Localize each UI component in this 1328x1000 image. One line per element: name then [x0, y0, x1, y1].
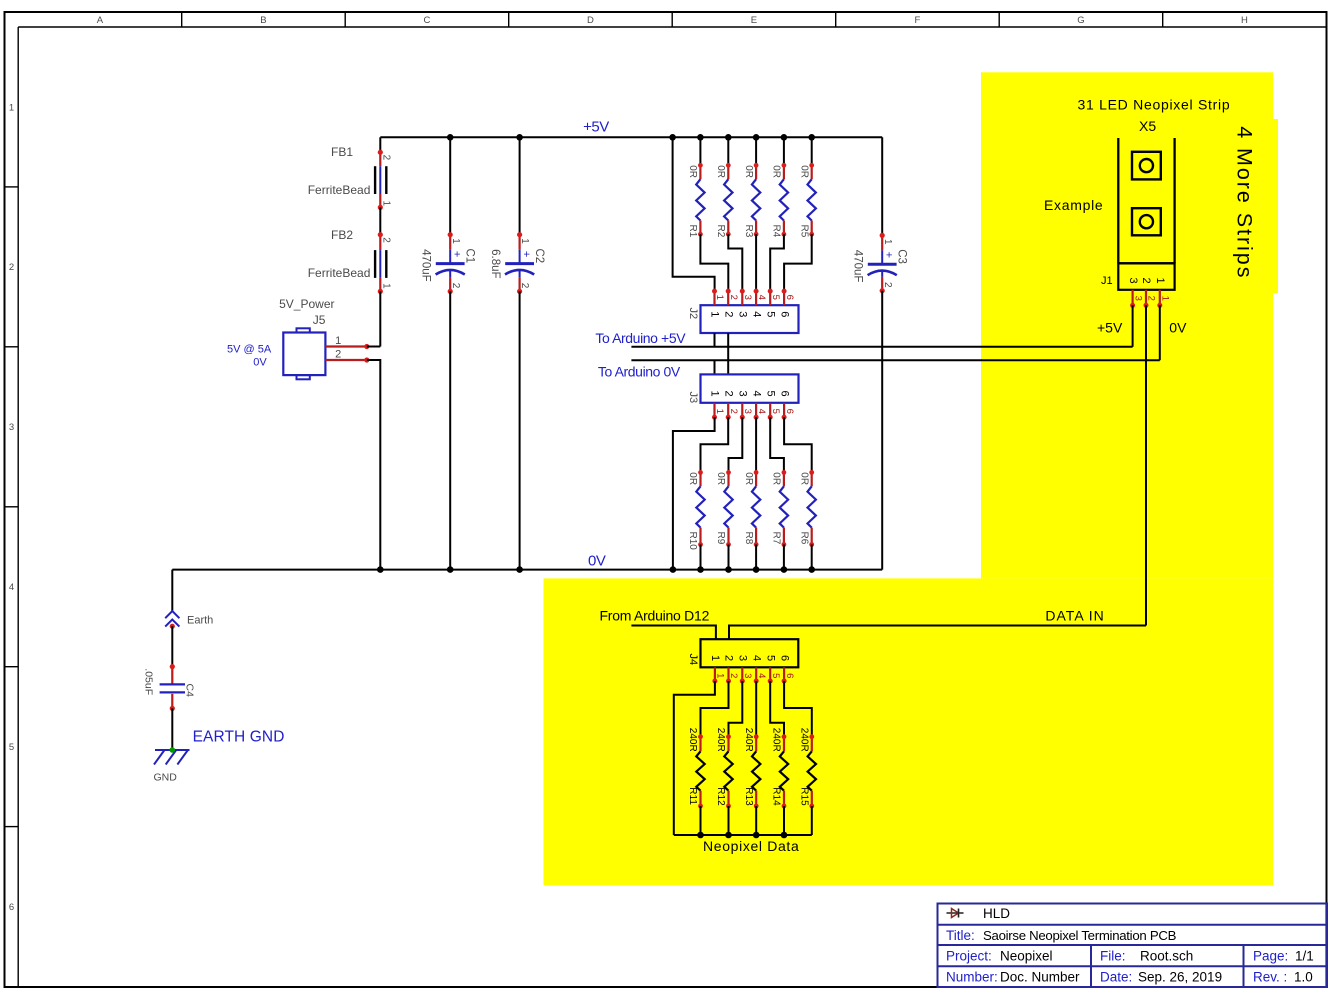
- logo HLD diode symbol: [947, 909, 964, 918]
- wire +5V rail to R2: [727, 137, 729, 165]
- svg-text:R7: R7: [771, 532, 782, 545]
- svg-text:0R: 0R: [771, 165, 782, 178]
- svg-text:3: 3: [742, 409, 753, 414]
- svg-text:GND: GND: [154, 771, 178, 783]
- svg-text:G: G: [1077, 15, 1084, 26]
- svg-text:H: H: [1241, 15, 1248, 26]
- wire J4 pin4 to R13: [755, 681, 757, 737]
- resistor R1 (0R): [687, 163, 705, 238]
- junction dots on +5V top rail: [447, 134, 815, 141]
- svg-text:1: 1: [519, 238, 530, 244]
- svg-text:2: 2: [9, 262, 14, 273]
- wire C1 to 0V rail: [449, 291, 451, 569]
- svg-text:2: 2: [1146, 296, 1157, 301]
- svg-text:240R: 240R: [771, 728, 782, 752]
- svg-text:R4: R4: [771, 225, 782, 238]
- wire +5V rail to R5: [811, 137, 813, 165]
- connector J5 5V_Power: [227, 297, 369, 379]
- wire resistor to Neopixel Data bus: [811, 806, 813, 835]
- svg-text:Title:: Title:: [946, 928, 975, 943]
- svg-text:FerriteBead: FerriteBead: [308, 266, 371, 280]
- capacitor C4 .05uF: [143, 664, 196, 711]
- svg-text:1: 1: [882, 239, 893, 245]
- svg-text:J1: J1: [1101, 275, 1113, 287]
- svg-text:Example: Example: [1044, 197, 1103, 213]
- svg-text:4: 4: [756, 409, 767, 414]
- svg-text:4: 4: [9, 582, 14, 593]
- connector J2: [687, 289, 798, 333]
- svg-text:2: 2: [728, 673, 739, 678]
- ground symbol GND: [154, 747, 190, 783]
- svg-text:FB2: FB2: [331, 228, 353, 242]
- svg-text:5: 5: [770, 295, 781, 300]
- svg-text:5: 5: [770, 673, 781, 678]
- svg-text:0R: 0R: [798, 165, 809, 178]
- wire J3 pin4 to R8: [755, 417, 757, 472]
- svg-text:D: D: [587, 15, 594, 26]
- svg-text:470uF: 470uF: [420, 249, 432, 282]
- wire J3 pin5 to R7: [770, 417, 784, 472]
- svg-text:Saoirse Neopixel Termination P: Saoirse Neopixel Termination PCB: [983, 928, 1177, 943]
- svg-text:EARTH GND: EARTH GND: [193, 729, 285, 746]
- svg-text:Number:: Number:: [946, 970, 998, 985]
- wire Neopixel Data bus: [674, 834, 812, 836]
- wire J3 pin3 to R9: [729, 417, 743, 472]
- svg-text:2: 2: [381, 155, 392, 161]
- svg-text:0V: 0V: [253, 356, 267, 368]
- svg-text:4: 4: [750, 391, 762, 397]
- svg-text:3: 3: [737, 391, 749, 397]
- wire J5 pin2 to 0V rail: [367, 360, 381, 570]
- svg-text:3: 3: [9, 422, 14, 433]
- svg-text:E: E: [751, 15, 757, 26]
- svg-text:3: 3: [742, 295, 753, 300]
- wire resistor bottom to 0V rail: [755, 545, 757, 570]
- svg-text:C4: C4: [184, 684, 196, 698]
- svg-text:From Arduino D12: From Arduino D12: [600, 608, 710, 624]
- svg-text:File:: File:: [1100, 949, 1126, 964]
- wire J1 pin1 down to 0V rail: [1159, 305, 1161, 360]
- wire FB column top: [379, 137, 381, 152]
- svg-text:6: 6: [778, 655, 790, 661]
- svg-text:0R: 0R: [743, 472, 754, 485]
- wire +5V rail to R1: [699, 137, 701, 165]
- resistor R9 (0R): [715, 470, 733, 547]
- svg-text:5: 5: [9, 742, 14, 753]
- resistor R15 (240R): [799, 728, 817, 809]
- svg-text:2: 2: [335, 349, 341, 361]
- svg-text:FB1: FB1: [331, 145, 353, 159]
- wire R3 to J2 pin4: [755, 234, 757, 291]
- svg-text:R11: R11: [687, 787, 698, 805]
- yellow highlight block upper (strip example region): [981, 72, 1273, 578]
- svg-text:5: 5: [764, 311, 776, 317]
- wire resistor bottom to 0V rail: [728, 545, 730, 570]
- svg-text:R2: R2: [715, 225, 726, 238]
- svg-text:+5V: +5V: [1097, 319, 1123, 335]
- wire resistor to Neopixel Data bus: [755, 806, 757, 835]
- svg-text:4: 4: [756, 673, 767, 678]
- wire resistor bottom to 0V rail: [783, 545, 785, 570]
- wire J1 pin2 down to DATA IN line: [1145, 305, 1147, 625]
- svg-text:1: 1: [709, 655, 721, 661]
- svg-text:3: 3: [742, 673, 753, 678]
- svg-text:0R: 0R: [743, 165, 754, 178]
- svg-text:Earth: Earth: [187, 614, 213, 626]
- capacitor C3 (470uF): [852, 233, 908, 294]
- svg-text:4: 4: [750, 655, 762, 661]
- wire C3 to 0V rail: [881, 291, 883, 570]
- svg-text:1: 1: [450, 238, 461, 244]
- svg-text:0R: 0R: [715, 472, 726, 485]
- svg-text:3: 3: [737, 655, 749, 661]
- svg-text:1: 1: [335, 335, 341, 347]
- svg-text:0R: 0R: [798, 472, 809, 485]
- wire resistor to Neopixel Data bus: [783, 806, 785, 835]
- resistor R4 (0R): [771, 163, 789, 238]
- svg-text:6: 6: [784, 409, 795, 414]
- svg-text:R3: R3: [743, 225, 754, 238]
- wire +5V rail to R3: [755, 137, 757, 165]
- svg-text:J5: J5: [313, 313, 326, 327]
- wire resistor to Neopixel Data bus: [728, 806, 730, 835]
- svg-text:R13: R13: [743, 787, 754, 806]
- wire C4 to GND symbol: [171, 708, 173, 750]
- svg-text:C: C: [423, 15, 430, 26]
- svg-text:0V: 0V: [588, 553, 606, 570]
- svg-text:.05uF: .05uF: [143, 668, 155, 695]
- svg-text:Neopixel: Neopixel: [1000, 949, 1053, 964]
- svg-text:6: 6: [778, 311, 790, 317]
- svg-text:1: 1: [709, 391, 721, 397]
- column letters A-H: [97, 15, 1248, 26]
- svg-text:To Arduino 0V: To Arduino 0V: [598, 363, 681, 379]
- wire From Arduino D12 to J4 pin1: [631, 626, 716, 640]
- svg-text:Project:: Project:: [946, 949, 992, 964]
- wire R1 to J2 pin2: [700, 234, 728, 291]
- wire J2 pin2 stub through to J3: [727, 333, 729, 374]
- svg-text:6.8uF: 6.8uF: [489, 249, 501, 278]
- svg-text:+: +: [451, 251, 463, 257]
- wire J2 pin1 stub to +5V arduino rail: [714, 333, 716, 347]
- svg-text:R15: R15: [799, 787, 810, 806]
- row numbers 1-6: [9, 102, 14, 913]
- wire 0V rail to J3 pin1 stub: [714, 360, 716, 374]
- svg-text:31 LED Neopixel Strip: 31 LED Neopixel Strip: [1078, 97, 1231, 113]
- svg-text:2: 2: [450, 283, 461, 289]
- svg-text:J2: J2: [687, 308, 699, 320]
- resistor R14 (240R): [771, 728, 789, 809]
- svg-text:Page:: Page:: [1253, 949, 1288, 964]
- svg-text:5V_Power: 5V_Power: [279, 297, 334, 311]
- wire FB1 to FB2: [379, 207, 381, 234]
- svg-text:J4: J4: [687, 654, 699, 666]
- svg-text:470uF: 470uF: [852, 250, 864, 283]
- resistor R3 (0R): [743, 163, 761, 238]
- capacitor C1 (470uF): [420, 232, 476, 294]
- svg-text:2: 2: [728, 295, 739, 300]
- svg-text:+5V: +5V: [583, 119, 609, 136]
- svg-text:4 More Strips: 4 More Strips: [1233, 126, 1257, 279]
- svg-text:1: 1: [714, 409, 725, 414]
- svg-text:J3: J3: [687, 392, 699, 404]
- wire resistor bottom to 0V rail: [700, 545, 702, 570]
- svg-text:2: 2: [722, 391, 734, 397]
- svg-text:To Arduino +5V: To Arduino +5V: [595, 330, 686, 346]
- svg-text:5: 5: [764, 391, 776, 397]
- svg-text:5: 5: [770, 409, 781, 414]
- wire J4 pin2 to R11: [701, 681, 729, 737]
- svg-text:1: 1: [709, 311, 721, 317]
- wire R5 to J2 pin6: [784, 234, 812, 291]
- svg-text:6: 6: [778, 391, 790, 397]
- svg-text:6: 6: [784, 673, 795, 678]
- resistor R11 (240R): [687, 728, 705, 809]
- svg-text:C2: C2: [533, 249, 545, 264]
- svg-text:A: A: [97, 15, 104, 26]
- wire 0V bottom rail: [172, 569, 882, 571]
- svg-text:1: 1: [381, 283, 392, 289]
- svg-text:R5: R5: [798, 225, 809, 238]
- wire +5V rail to R4: [783, 137, 785, 165]
- earth symbol chevrons: [165, 611, 213, 629]
- resistor R2 (0R): [715, 163, 733, 238]
- resistor R10 (0R): [687, 470, 705, 550]
- svg-text:DATA IN: DATA IN: [1045, 608, 1104, 624]
- svg-text:1/1: 1/1: [1295, 949, 1314, 964]
- wire C2 column top: [519, 137, 521, 234]
- wire C3 column top: [881, 137, 883, 235]
- svg-text:0V: 0V: [1169, 319, 1187, 335]
- wire 0V rail down to Earth symbol: [171, 570, 173, 611]
- connector J4: [687, 639, 798, 683]
- wire +5V rail to J2 pin1 (left jog): [673, 137, 715, 291]
- wire Earth to C4: [171, 626, 173, 666]
- wire J4 pin5 to R14: [770, 681, 784, 737]
- svg-text:HLD: HLD: [983, 906, 1010, 921]
- svg-text:0R: 0R: [687, 472, 698, 485]
- svg-text:2: 2: [519, 283, 530, 289]
- svg-text:Neopixel Data: Neopixel Data: [703, 838, 799, 854]
- svg-text:Sep. 26, 2019: Sep. 26, 2019: [1138, 970, 1222, 985]
- wire J3 pin2 to R10: [701, 417, 729, 472]
- capacitor C2 (6.8uF): [489, 232, 545, 294]
- svg-text:R9: R9: [715, 532, 726, 545]
- wire R2 to J2 pin3: [728, 234, 742, 291]
- wire R4 to J2 pin5: [770, 234, 784, 291]
- svg-text:2: 2: [723, 655, 735, 661]
- svg-text:3: 3: [1127, 278, 1139, 284]
- svg-text:0R: 0R: [771, 472, 782, 485]
- yellow highlight block for 4 More Strips: [1225, 119, 1278, 293]
- wire DATA IN from J4 pin2 to J1 pin2: [729, 626, 1146, 640]
- svg-text:3: 3: [737, 311, 749, 317]
- svg-text:1.0: 1.0: [1294, 970, 1313, 985]
- wire C1 column top: [449, 137, 451, 234]
- neopixel strip symbol X5: [1118, 138, 1174, 263]
- svg-text:1: 1: [381, 201, 392, 207]
- wire J3 pin1 to 0V rail (left jog): [673, 417, 715, 569]
- ferrite bead FB2: [308, 228, 392, 294]
- svg-text:240R: 240R: [687, 728, 698, 752]
- svg-text:240R: 240R: [743, 728, 754, 752]
- svg-text:240R: 240R: [715, 728, 726, 752]
- svg-text:R14: R14: [771, 787, 782, 806]
- svg-text:2: 2: [1140, 278, 1152, 284]
- svg-text:2: 2: [722, 311, 734, 317]
- wire To Arduino +5V rail: [631, 346, 1132, 348]
- title block frame: [938, 904, 1328, 988]
- svg-text:Root.sch: Root.sch: [1140, 949, 1193, 964]
- svg-text:+: +: [883, 252, 895, 258]
- svg-text:1: 1: [9, 102, 14, 113]
- svg-text:2: 2: [381, 237, 392, 243]
- wire J3 pin6 to R6: [784, 417, 812, 472]
- svg-text:5: 5: [764, 655, 776, 661]
- svg-text:6: 6: [9, 902, 14, 913]
- svg-text:R8: R8: [743, 532, 754, 545]
- svg-text:1: 1: [715, 673, 726, 678]
- svg-text:Rev. :: Rev. :: [1253, 970, 1287, 985]
- svg-text:1: 1: [1154, 278, 1166, 284]
- svg-text:R1: R1: [687, 225, 698, 238]
- svg-text:Date:: Date:: [1100, 970, 1132, 985]
- wire To Arduino 0V rail: [631, 359, 1159, 361]
- wire J4 pin6 to R15: [784, 681, 812, 737]
- svg-text:5V @ 5A: 5V @ 5A: [227, 344, 272, 356]
- resistor R8 (0R): [743, 470, 761, 547]
- svg-text:4: 4: [756, 295, 767, 300]
- resistor R13 (240R): [743, 728, 761, 809]
- svg-text:240R: 240R: [799, 728, 810, 752]
- svg-text:2: 2: [882, 282, 893, 288]
- svg-text:1: 1: [714, 295, 725, 300]
- svg-text:0R: 0R: [715, 165, 726, 178]
- svg-text:C3: C3: [895, 249, 907, 264]
- svg-text:R10: R10: [687, 532, 698, 551]
- svg-text:1: 1: [1160, 296, 1171, 301]
- wire J4 pin3 to R12: [729, 681, 743, 737]
- svg-text:Doc. Number: Doc. Number: [1000, 970, 1080, 985]
- svg-text:3: 3: [1132, 296, 1143, 301]
- wire +5V top rail: [380, 136, 882, 138]
- svg-text:F: F: [914, 15, 920, 26]
- resistor R12 (240R): [715, 728, 733, 809]
- svg-text:4: 4: [750, 311, 762, 317]
- svg-text:+: +: [520, 251, 532, 257]
- svg-text:B: B: [260, 15, 266, 26]
- resistor R7 (0R): [771, 470, 789, 547]
- wire J4 pin1 to data bus left end: [674, 681, 715, 835]
- svg-text:X5: X5: [1139, 118, 1156, 134]
- junction dots on Neopixel Data bus: [697, 832, 787, 839]
- junction dots on 0V rail: [377, 566, 815, 573]
- resistor R5 (0R): [798, 163, 816, 238]
- wire FB2 to J5 pin1 junction: [379, 291, 381, 346]
- connector J3: [687, 374, 798, 419]
- wire C2 to 0V rail: [519, 291, 521, 569]
- svg-text:FerriteBead: FerriteBead: [308, 183, 371, 197]
- resistor R6 (0R): [798, 470, 816, 547]
- svg-text:C1: C1: [463, 249, 475, 264]
- svg-text:R6: R6: [798, 532, 809, 545]
- svg-text:6: 6: [784, 295, 795, 300]
- ferrite bead FB1: [308, 145, 392, 210]
- svg-text:0R: 0R: [687, 165, 698, 178]
- wire resistor to Neopixel Data bus: [700, 806, 702, 835]
- wire resistor bottom to 0V rail: [811, 545, 813, 570]
- svg-text:2: 2: [728, 409, 739, 414]
- connector J1: [1101, 263, 1175, 308]
- yellow highlight block lower (data resistors region): [544, 578, 1274, 885]
- wire J1 pin3 down to +5V rail: [1132, 305, 1134, 347]
- svg-text:R12: R12: [715, 787, 726, 806]
- title block texts: [946, 906, 1314, 985]
- wire J5 pin1 to FB column: [367, 346, 381, 348]
